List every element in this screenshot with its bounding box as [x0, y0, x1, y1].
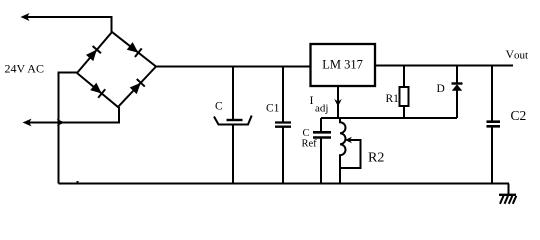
- AC input terminal 2: [23, 119, 32, 127]
- junction arrow on lower AC wire: [57, 119, 65, 126]
- svg-text:D: D: [437, 83, 445, 95]
- resistor R1 upper lead: [403, 66, 405, 87]
- capacitor C lower lead: [232, 126, 234, 184]
- wire bridge lower branches: [77, 67, 156, 108]
- capacitor C_Ref lower lead: [320, 139, 322, 184]
- wire output rail: [375, 65, 513, 67]
- capacitor C_Ref plates: [313, 132, 331, 137]
- wire main DC rail: [156, 66, 311, 68]
- svg-text:I: I: [310, 93, 314, 107]
- capacitor C1 lower lead: [282, 128, 284, 184]
- capacitor C2 upper lead: [491, 66, 493, 121]
- wire ground drop: [508, 184, 510, 195]
- wire bridge upper branches: [77, 32, 156, 73]
- diode D1 (bridge upper-left): [85, 46, 101, 62]
- resistor R1 lower lead: [403, 106, 405, 118]
- capacitor C curved plate: [214, 116, 252, 125]
- svg-text:24V AC: 24V AC: [5, 62, 44, 76]
- resistor R1 body: [400, 87, 409, 106]
- capacitor C upper lead: [232, 67, 234, 120]
- svg-text:adj: adj: [315, 103, 328, 115]
- svg-text:Ref: Ref: [302, 139, 318, 150]
- svg-text:R2: R2: [368, 151, 384, 166]
- svg-text:C1: C1: [266, 103, 280, 115]
- wire adj net: [321, 117, 457, 119]
- diode D2 (bridge upper-right): [126, 42, 141, 57]
- svg-text:C2: C2: [511, 108, 527, 123]
- wire bottom rail: [59, 183, 510, 185]
- diode D3 (bridge lower-left): [90, 82, 105, 97]
- ground symbol: [499, 194, 516, 196]
- diode D bar: [452, 82, 463, 84]
- diode D4 (bridge lower-right): [129, 79, 145, 95]
- svg-text:C: C: [215, 101, 223, 113]
- wire bridge negative to bottom rail: [59, 73, 78, 184]
- svg-text:out: out: [514, 50, 528, 62]
- adj pin wire: [337, 86, 339, 118]
- svg-text:LM 317: LM 317: [322, 58, 363, 72]
- adj current arrow: [334, 99, 342, 107]
- ink dot on bottom rail: [77, 181, 79, 183]
- wire lower AC lead: [29, 107, 119, 123]
- capacitor C2 lower lead: [491, 128, 493, 185]
- AC input terminal 1: [21, 13, 30, 21]
- capacitor C_Ref upper lead: [320, 118, 322, 131]
- svg-text:C: C: [303, 128, 310, 139]
- R2 wiper wire: [341, 140, 361, 168]
- R2 wiper arrow: [345, 137, 352, 143]
- capacitor C1 plates: [275, 123, 291, 127]
- svg-text:R1: R1: [386, 93, 400, 105]
- capacitor C1 upper lead: [282, 67, 284, 122]
- capacitor C2 plates: [487, 122, 501, 127]
- diode D triangle: [452, 84, 462, 91]
- wire top AC lead: [27, 17, 112, 32]
- rheostat R2 coil: [340, 118, 346, 184]
- diode D lower lead: [456, 91, 458, 119]
- diode D upper lead: [456, 66, 458, 84]
- regulator U1 LM317 box: [311, 44, 376, 86]
- capacitor C top plate: [227, 119, 243, 121]
